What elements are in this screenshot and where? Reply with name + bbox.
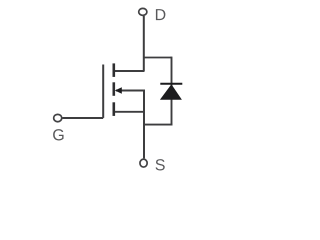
mosfet Q1 body arrow	[115, 87, 122, 94]
label S	[156, 159, 165, 170]
mosfet Q1 channel source segment	[113, 102, 116, 116]
mosfet Q1 source stub	[115, 111, 144, 113]
label D	[156, 9, 165, 20]
wire diode branch vertical	[171, 57, 173, 126]
diode D1 anode triangle	[160, 84, 182, 100]
mosfet Q1 channel drain segment	[113, 63, 116, 77]
mosfet Q1 body stub wire and source down wire	[116, 91, 144, 159]
terminal D	[139, 8, 147, 15]
mosfet Q1 channel body segment	[113, 82, 116, 96]
terminal S	[140, 159, 147, 167]
diode D1 cathode bar	[160, 83, 182, 85]
mosfet Q1 gate line	[102, 65, 104, 118]
label G	[53, 129, 63, 140]
wire drain stub	[115, 70, 145, 72]
wire diode bottom	[144, 124, 172, 126]
terminal G	[54, 114, 62, 121]
wire drain vertical	[143, 16, 145, 71]
wire gate horizontal	[62, 117, 103, 119]
wire drain to diode top	[144, 57, 172, 59]
